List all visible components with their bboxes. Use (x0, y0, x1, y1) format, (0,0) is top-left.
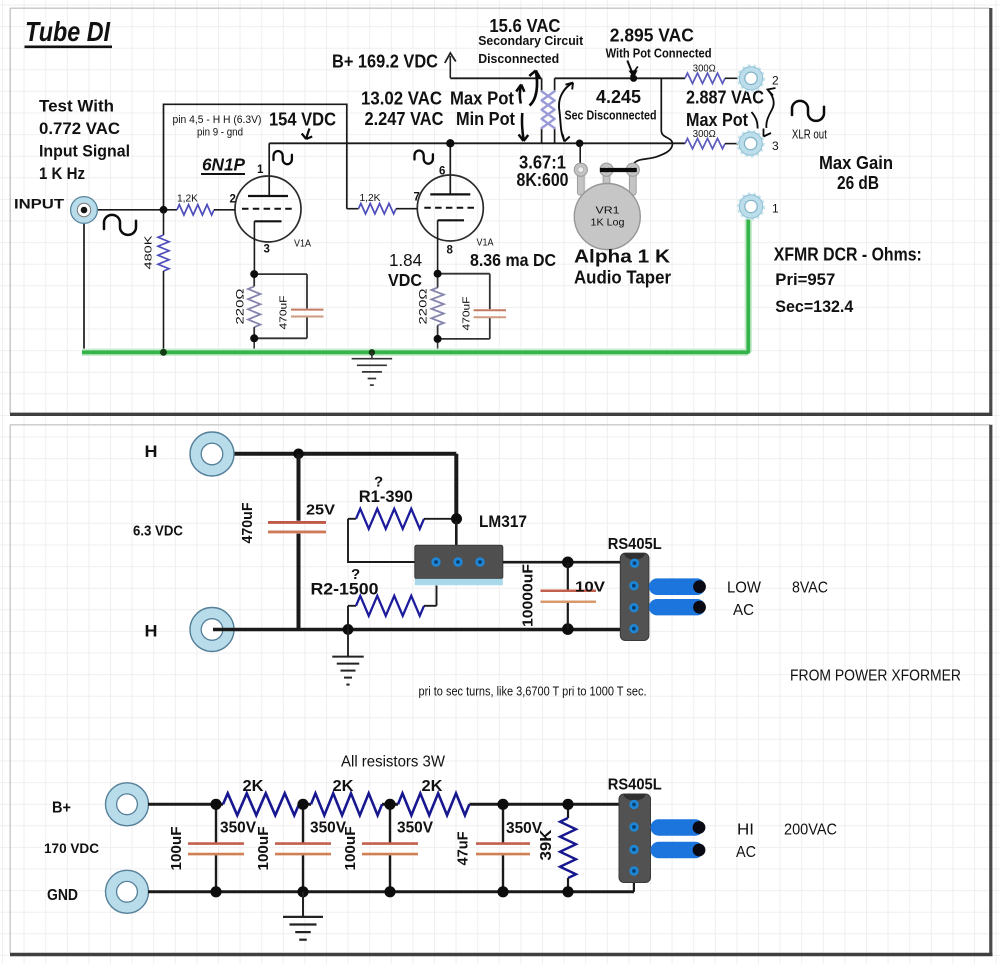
IC LM317 regulator body (415, 545, 503, 579)
svg-text:Alpha 1 K: Alpha 1 K (574, 247, 670, 267)
svg-text:AC: AC (733, 602, 754, 619)
svg-text:13.02 VAC: 13.02 VAC (361, 87, 442, 108)
tube2 grid (dashed) (424, 207, 476, 209)
arrow to plate rail (306, 129, 309, 140)
svg-text:Sec Disconnected: Sec Disconnected (565, 108, 657, 122)
junction ground tap on bus (369, 349, 375, 355)
svg-text:FROM POWER XFORMER: FROM POWER XFORMER (790, 668, 961, 685)
svg-text:Min Pot: Min Pot (456, 108, 515, 129)
svg-text:2: 2 (230, 194, 236, 206)
panel 1 frame (signal circuit) (10, 7, 990, 9)
junction 100uF x=303 bottom (297, 886, 308, 897)
junction cathode2 bottom (434, 335, 442, 343)
svg-text:350V: 350V (397, 820, 434, 837)
junction cathode1 top (250, 270, 258, 278)
svg-text:Tube DI: Tube DI (25, 16, 111, 47)
svg-text:All resistors 3W: All resistors 3W (341, 754, 446, 771)
jack B+ (106, 783, 149, 826)
annotation arrows near transformer primary (520, 85, 521, 104)
svg-text:RS405L: RS405L (608, 777, 662, 794)
top rail: B+ to transformer primary and secondary to output (450, 77, 541, 79)
svg-text:8.36 ma DC: 8.36 ma DC (470, 250, 556, 270)
capacitor 100uF 350V at x=216 (215, 804, 217, 842)
wire R2 left down to bottom wire (347, 606, 349, 629)
svg-text:V1A: V1A (477, 238, 494, 249)
wire junction down into regulator (455, 521, 458, 546)
svg-text:Input Signal: Input Signal (39, 142, 130, 161)
svg-text:VR1: VR1 (596, 206, 621, 217)
jack H top (190, 432, 234, 476)
junction: tube2 plate node (446, 139, 454, 147)
junction 10000uF top (562, 557, 574, 569)
RS405L pin 1 (630, 559, 639, 568)
svg-text:350V: 350V (220, 820, 257, 837)
annotation arrow with-pot-connected to node (627, 61, 633, 75)
svg-text:LOW: LOW (727, 580, 762, 597)
svg-text:170 VDC: 170 VDC (44, 840, 99, 856)
svg-text:?: ? (351, 566, 360, 583)
svg-text:6N1P: 6N1P (202, 155, 245, 175)
RS405L pin 2 (629, 581, 638, 590)
svg-text:V1A: V1A (294, 239, 311, 250)
annotation down arrow to wire B (522, 113, 524, 140)
svg-text:Test With: Test With (39, 97, 114, 116)
wire heater top (213, 452, 456, 456)
wire B: plate rail to transformer and output (269, 142, 685, 144)
wire R2 right up to regulator (436, 586, 438, 606)
svg-text:350V: 350V (310, 820, 347, 837)
wire cathode1 to bus (253, 338, 255, 351)
svg-text:1 K Hz: 1 K Hz (39, 164, 85, 183)
svg-text:1: 1 (772, 202, 779, 216)
svg-text:LM317: LM317 (479, 513, 527, 531)
sine symbol stage2 (415, 151, 433, 164)
svg-text:Audio Taper: Audio Taper (574, 268, 671, 288)
svg-text:8K:600: 8K:600 (517, 170, 569, 190)
ground symbol B+ (302, 892, 304, 917)
jack H bottom (190, 608, 234, 652)
svg-text:Max Pot: Max Pot (686, 109, 748, 130)
panel 2 frame (power supply) (10, 424, 990, 426)
svg-text:300Ω: 300Ω (693, 129, 716, 140)
wire input jack down to ground bus (83, 220, 85, 351)
junction cathode1 bottom (250, 334, 258, 342)
wire R1 left to ADJ pin (348, 519, 415, 562)
jack GND (106, 870, 149, 913)
svg-text:pri to sec turns, like 3,6700: pri to sec turns, like 3,6700 T pri to 1… (419, 685, 647, 699)
RS405L(2) pin 1 (629, 800, 638, 809)
svg-text:100uF: 100uF (255, 827, 272, 871)
svg-text:2.895 VAC: 2.895 VAC (610, 25, 694, 46)
LM317 pin 3 (475, 557, 484, 566)
capacitor 100uF 350V at x=390 (389, 804, 391, 842)
svg-text:2.247 VAC: 2.247 VAC (365, 108, 444, 129)
svg-text:480K: 480K (143, 236, 155, 270)
node: pot tap junction on top rail (630, 75, 637, 82)
svg-text:RS405L: RS405L (608, 536, 662, 553)
RS405L(2) pin 4 (629, 866, 638, 875)
capacitor 470uF stage2 (489, 274, 491, 310)
tube1 plate (248, 195, 288, 197)
junction cathode2 top (434, 270, 442, 278)
wire input jack to grid junction (92, 209, 164, 211)
svg-text:Max Gain: Max Gain (819, 152, 893, 173)
junction 10000uF bottom (562, 623, 574, 635)
tube V1A section 2 (417, 175, 483, 241)
svg-text:2: 2 (772, 74, 779, 88)
svg-text:XLR out: XLR out (792, 128, 827, 142)
svg-text:100uF: 100uF (168, 827, 185, 871)
RS405L pin 4 (629, 624, 638, 633)
wire cathode2 bottom (438, 338, 490, 340)
junction 39K top (562, 799, 573, 810)
capacitor 10000uF 10V (567, 562, 569, 589)
jack XLR pin 1 (738, 194, 764, 220)
tube2 cathode (438, 219, 464, 221)
svg-text:B+: B+ (52, 800, 71, 817)
svg-text:GND: GND (47, 887, 78, 904)
annotation arrow to XLR pins (768, 88, 776, 96)
svg-text:154 VDC: 154 VDC (269, 109, 336, 130)
wire: tube2 plate drop (449, 143, 451, 194)
junction R2/ground on bottom heater wire (343, 624, 354, 635)
svg-text:3: 3 (772, 139, 779, 153)
wire cathode2 top (438, 273, 490, 275)
svg-text:470uF: 470uF (239, 503, 256, 544)
potentiometer VR1 (579, 143, 581, 166)
svg-text:2K: 2K (422, 778, 444, 795)
pot wiper short bar (600, 168, 637, 172)
tube1 grid (dashed) (242, 208, 294, 210)
svg-text:1.84: 1.84 (389, 250, 422, 270)
jack J-IN input (71, 197, 98, 224)
svg-text:220Ω: 220Ω (235, 289, 247, 325)
RS405L(2) pin 3 (629, 845, 638, 854)
wire regulator output to rectifier (503, 561, 621, 564)
svg-text:470uF: 470uF (278, 296, 290, 330)
capacitor 47uF 350V (502, 804, 504, 842)
svg-text:Pri=957: Pri=957 (775, 270, 835, 289)
wire cathode1 top (254, 273, 307, 275)
wire rectifier bottom pin down (633, 871, 635, 892)
svg-text:H: H (145, 622, 158, 641)
svg-text:1,2K: 1,2K (177, 194, 198, 205)
svg-text:Disconnected: Disconnected (478, 51, 559, 66)
svg-text:6.3 VDC: 6.3 VDC (133, 524, 183, 540)
junction 47uF bottom (497, 886, 508, 897)
sine symbol stage1 (274, 151, 292, 164)
bridge AC bars (high) (651, 819, 704, 836)
svg-text:8VAC: 8VAC (792, 580, 828, 597)
wire A: grid junction up/over to stage-2 grid resistor (164, 104, 347, 209)
svg-text:25V: 25V (306, 502, 335, 519)
jack XLR pin 3 (738, 131, 764, 157)
wire GND rail (148, 890, 634, 893)
junction: secondary bottom / pot left lug (576, 140, 584, 148)
svg-text:Max Pot: Max Pot (450, 87, 514, 108)
svg-text:R2-1500: R2-1500 (311, 581, 379, 599)
svg-text:B+ 169.2 VDC: B+ 169.2 VDC (332, 51, 438, 72)
svg-text:Sec=132.4: Sec=132.4 (775, 297, 854, 316)
junction 100uF x=303 top (297, 799, 308, 810)
wire B+ rail (148, 803, 223, 806)
svg-text:H: H (145, 442, 158, 461)
wire: hop from top rail to pot right lug (633, 78, 672, 168)
capacitor 100uF 350V at x=303 (302, 804, 304, 842)
svg-text:300Ω: 300Ω (693, 64, 716, 75)
svg-text:8: 8 (447, 245, 454, 257)
svg-text:470uF: 470uF (461, 297, 473, 331)
svg-text:3: 3 (264, 244, 270, 256)
svg-text:With Pot Connected: With Pot Connected (606, 46, 712, 61)
junction 100uF x=216 top (210, 799, 221, 810)
svg-text:1K Log: 1K Log (591, 218, 625, 229)
RS405L(2) pin 2 (629, 822, 638, 831)
junction LM317 output node (451, 513, 462, 524)
jack XLR pin 2 (738, 65, 764, 91)
svg-text:47uF: 47uF (455, 832, 472, 866)
sine symbol XLR out (792, 101, 824, 121)
bridge AC bars (low) (649, 578, 706, 595)
svg-text:10V: 10V (575, 579, 605, 596)
sine symbol at input (104, 215, 136, 235)
junction heater cap (293, 449, 304, 460)
svg-text:4.245: 4.245 (596, 86, 641, 107)
junction 100uF x=216 bottom (210, 886, 221, 897)
tube2 plate (430, 193, 470, 195)
svg-text:200VAC: 200VAC (784, 822, 837, 839)
junction 39K bottom (562, 886, 573, 897)
capacitor 470uF stage1 (306, 274, 308, 308)
svg-text:220Ω: 220Ω (418, 289, 430, 325)
transformer T1 (541, 78, 543, 92)
junction 100uF x=390 bottom (384, 886, 395, 897)
wire heater bottom (213, 628, 633, 632)
svg-text:pin 9 - gnd: pin 9 - gnd (197, 127, 243, 139)
ground symbol (signal) (371, 352, 373, 358)
svg-text:39K: 39K (538, 829, 555, 861)
svg-text:?: ? (374, 474, 383, 491)
svg-text:VDC: VDC (388, 270, 422, 290)
junction 47uF top (497, 799, 508, 810)
svg-text:R1-390: R1-390 (359, 488, 413, 506)
junction 480K on bus (160, 349, 167, 356)
svg-text:Secondary Circuit: Secondary Circuit (478, 33, 584, 48)
svg-text:HI: HI (737, 822, 754, 839)
junction 100uF x=390 top (384, 799, 395, 810)
svg-text:1: 1 (257, 164, 264, 176)
svg-text:6: 6 (439, 166, 445, 178)
svg-text:10000uF: 10000uF (520, 564, 537, 627)
ground symbol heater (347, 630, 349, 657)
svg-text:7: 7 (414, 192, 420, 204)
LM317 pin 1 (431, 557, 440, 566)
tube1 cathode (254, 220, 281, 222)
LM317 pin 2 (453, 557, 462, 566)
annotation brace secondary (559, 83, 573, 141)
junction grid1 node (160, 206, 168, 214)
svg-text:26 dB: 26 dB (837, 172, 879, 193)
green ground bus (82, 349, 748, 357)
B+ arrow (449, 56, 451, 78)
svg-text:0.772 VAC: 0.772 VAC (39, 119, 120, 138)
green wire up to XLR pin1 (746, 220, 750, 354)
RS405L pin 3 (629, 603, 638, 612)
wire heater top corner down (454, 454, 458, 516)
wire: tube1 plate lead (268, 143, 270, 195)
svg-text:AC: AC (736, 844, 756, 861)
wire cathode1 bottom (254, 337, 307, 339)
svg-text:INPUT: INPUT (14, 197, 64, 213)
svg-text:pin 4,5 - H H (6.3V): pin 4,5 - H H (6.3V) (173, 114, 262, 126)
svg-text:XFMR DCR - Ohms:: XFMR DCR - Ohms: (774, 245, 922, 265)
capacitor 470uF 25V heater (297, 454, 301, 521)
